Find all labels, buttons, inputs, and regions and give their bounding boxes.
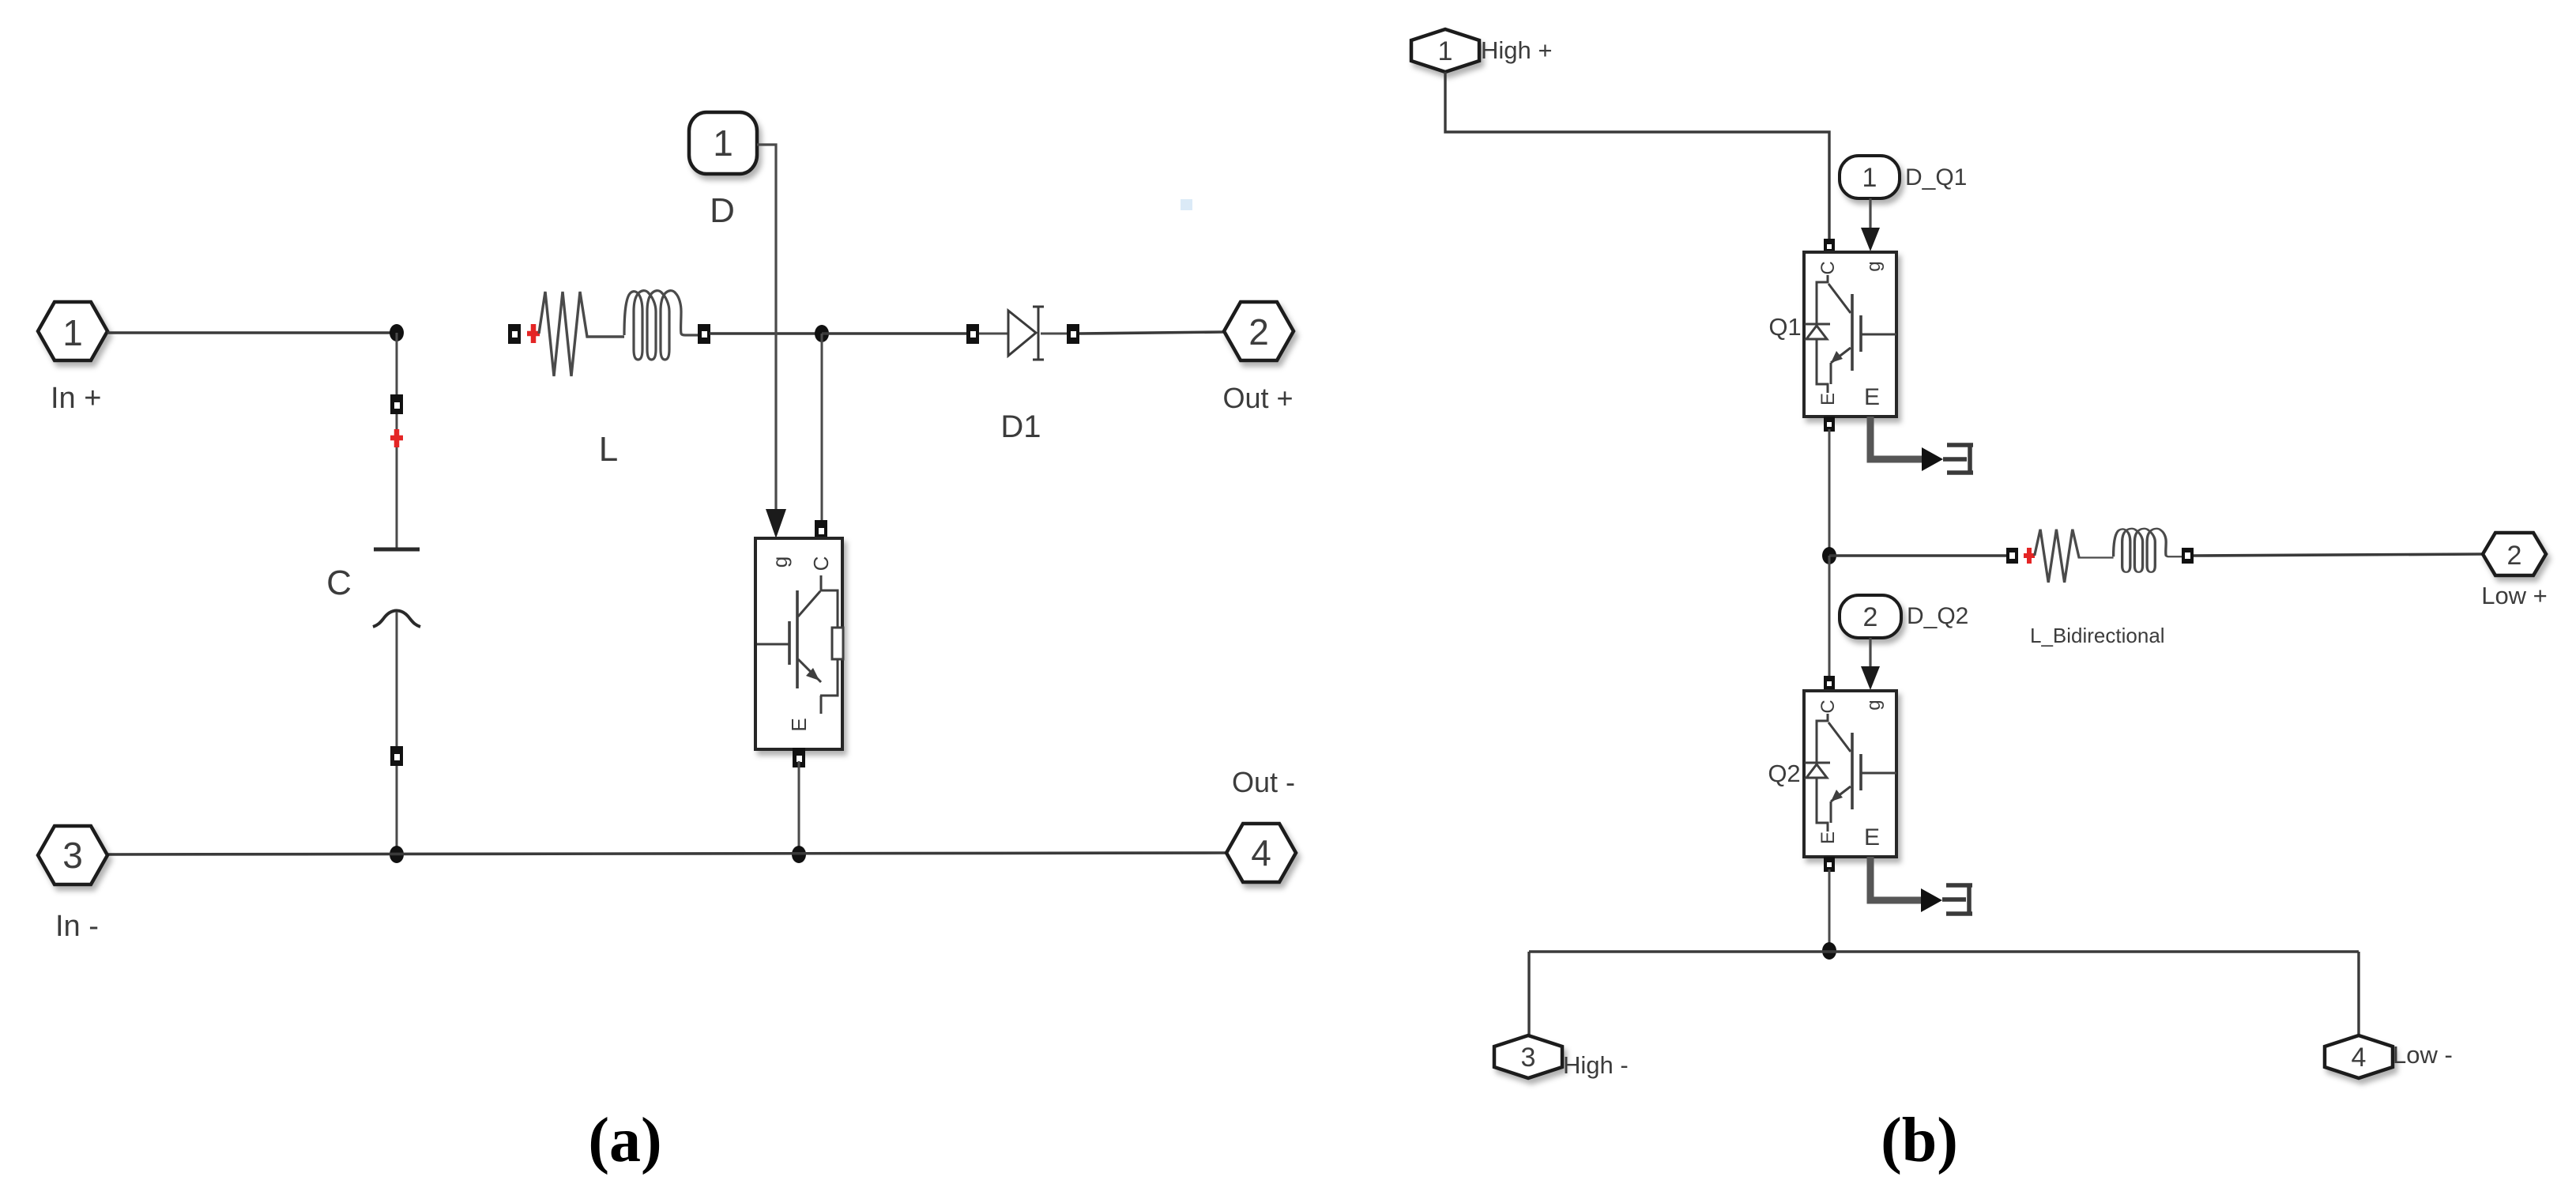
arrowhead into Q2 gate [1861, 666, 1880, 690]
IGBT symbol [757, 575, 838, 714]
port D_Q1 (1) rounded rect [1840, 156, 1900, 198]
diode D1 [966, 307, 1079, 360]
port Out- (4) hexagon [1226, 824, 1296, 882]
svg-text:3: 3 [1521, 1043, 1536, 1073]
svg-text:E: E [787, 718, 811, 731]
svg-text:D1: D1 [1000, 409, 1041, 444]
svg-text:In -: In - [55, 910, 99, 943]
Q2 emitter arrow [1831, 790, 1843, 801]
svg-text:C: C [809, 556, 833, 571]
node F junction [1822, 942, 1836, 960]
wire In+ to node A [107, 331, 397, 334]
wire D1 to port Out+ [1079, 332, 1224, 334]
svg-text:D_Q1: D_Q1 [1905, 164, 1967, 190]
bottom rail wire In- to Out- [107, 853, 1226, 854]
IGBT emitter arrow [806, 668, 819, 681]
node E junction [1822, 547, 1836, 564]
IGBT internal rect [832, 628, 843, 659]
L right connector [698, 324, 710, 344]
svg-text:C: C [1817, 261, 1839, 274]
svg-text:D_Q2: D_Q2 [1907, 603, 1968, 629]
D1 left connector [966, 324, 979, 344]
L_Bidirectional left connector [2006, 548, 2018, 564]
wire node E to inductor [1829, 554, 2006, 557]
Q1 internal symbol [1805, 275, 1896, 393]
wire node A down to capacitor [396, 333, 398, 548]
node D junction [792, 846, 806, 863]
svg-text:High +: High + [1481, 36, 1552, 64]
L coil [624, 291, 704, 360]
svg-text:Low -: Low - [2393, 1041, 2453, 1069]
Q1 collector connector [1824, 239, 1835, 254]
svg-text:C: C [326, 564, 352, 602]
wire L to node C [710, 332, 822, 335]
svg-text:C: C [1817, 700, 1839, 713]
svg-text:(b): (b) [1881, 1106, 1958, 1175]
wire High+ to Q1 collector [1445, 72, 1829, 239]
svg-text:E: E [1817, 832, 1839, 844]
D1 triangle [1008, 311, 1036, 356]
wire node C to diode D1 [822, 332, 974, 335]
capacitor C bottom connector [390, 746, 403, 766]
svg-text:1: 1 [713, 123, 733, 164]
svg-text:Q2: Q2 [1768, 760, 1800, 787]
svg-text:1: 1 [1438, 36, 1453, 66]
node A junction [390, 324, 404, 341]
L resistor zigzag [539, 292, 624, 376]
D1 right connector [1067, 324, 1079, 344]
svg-text:High -: High - [1563, 1051, 1629, 1079]
capacitor C polarity mark [390, 429, 403, 447]
svg-text:2: 2 [1248, 311, 1269, 353]
port D_Q2 (2) rounded rect [1840, 595, 1901, 638]
svg-text:1: 1 [1862, 163, 1877, 193]
inductor L_Bidirectional [2006, 529, 2194, 583]
node B junction [390, 846, 404, 863]
svg-text:L: L [599, 430, 618, 469]
port High- (3) hexagon [1494, 1035, 1562, 1078]
port In- (3) hexagon [38, 826, 107, 884]
L_Bidirectional polarity mark [2024, 548, 2035, 564]
inductor L (series RL branch) [508, 291, 710, 376]
port High+ (1) hexagon [1411, 29, 1479, 72]
wire L_Bidirectional to port Low+ [2194, 554, 2483, 556]
wire Q2 emitter to node F [1828, 869, 1831, 951]
svg-text:(a): (a) [588, 1106, 661, 1175]
svg-text:2: 2 [1863, 602, 1878, 632]
Q2 collector connector [1824, 676, 1835, 691]
svg-text:4: 4 [2352, 1043, 2367, 1073]
Q2 measurement tag [1942, 885, 1972, 914]
wire capacitor to node B [396, 612, 398, 854]
Q1 emitter connector [1824, 417, 1835, 432]
wire D port down to IGBT gate [757, 145, 776, 512]
wire D_Q2 to Q2 gate [1869, 638, 1871, 669]
D1 cathode bar [1033, 307, 1044, 360]
svg-text:Q1: Q1 [1768, 313, 1801, 341]
port D (1) rounded rect [689, 112, 757, 174]
wire down to Low- [2357, 952, 2359, 1036]
arrowhead into Q1 gate [1861, 228, 1880, 251]
svg-text:D: D [710, 191, 735, 230]
L left connector [508, 324, 521, 344]
arrowhead into IGBT gate [766, 509, 786, 538]
Q1 emitter arrow [1831, 351, 1843, 363]
port Low+ (2) hexagon [2483, 533, 2546, 575]
wire D_Q1 to Q1 gate [1869, 198, 1871, 231]
svg-text:3: 3 [62, 835, 83, 876]
capacitor C [373, 549, 420, 627]
svg-text:Out +: Out + [1222, 382, 1293, 414]
svg-text:2: 2 [2507, 541, 2522, 571]
Q2 measurement wire to tag [1870, 857, 1972, 914]
svg-text:E: E [1817, 393, 1839, 405]
wire Q1 emitter to node E [1828, 429, 1831, 556]
svg-text:In +: In + [51, 382, 101, 415]
Q2 antiparallel diode [1806, 764, 1827, 778]
L_Bidirectional right connector [2182, 548, 2194, 564]
svg-text:L_Bidirectional: L_Bidirectional [2030, 624, 2165, 647]
svg-text:4: 4 [1251, 832, 1271, 873]
L_Bidirectional coil [2114, 529, 2187, 572]
wire IGBT emitter to node D [798, 761, 800, 854]
wire node C down to IGBT collector [821, 334, 823, 522]
svg-text:Out -: Out - [1232, 766, 1295, 798]
port Out+ (2) hexagon [1224, 302, 1294, 360]
node C junction [815, 325, 829, 342]
svg-text:g: g [768, 556, 792, 568]
L_Bidirectional resistor zigzag [2035, 530, 2114, 583]
svg-text:g: g [1863, 261, 1885, 271]
svg-text:Low +: Low + [2481, 582, 2548, 609]
bottom rail wire (b) [1529, 950, 2359, 952]
Q1 measurement wire to tag [1870, 417, 1973, 473]
svg-text:E: E [1864, 824, 1880, 850]
Q2 internal symbol [1805, 714, 1896, 832]
capacitor C top connector [390, 394, 403, 414]
svg-text:E: E [1864, 384, 1880, 410]
IGBT block Q1 [1804, 252, 1896, 417]
IGBT block Q2 [1804, 691, 1896, 857]
Q2 emitter connector [1824, 857, 1835, 872]
L polarity mark [527, 324, 540, 343]
port Low- (4) hexagon [2325, 1035, 2393, 1078]
wire node E to Q2 collector [1828, 556, 1831, 678]
IGBT collector connector [815, 520, 827, 540]
svg-text:g: g [1863, 700, 1885, 710]
stray artifact dot [1181, 199, 1192, 210]
wire down to High- [1527, 952, 1530, 1036]
IGBT emitter connector [793, 748, 805, 767]
svg-text:1: 1 [62, 312, 83, 353]
Q1 antiparallel diode [1806, 326, 1827, 339]
Q1 measurement tag [1943, 445, 1973, 473]
IGBT block (a) [755, 538, 843, 749]
port In+ (1) hexagon [38, 302, 107, 360]
